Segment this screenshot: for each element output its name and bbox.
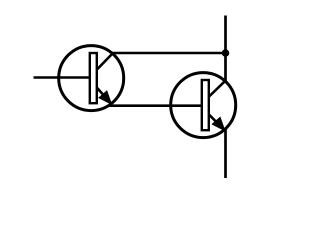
Q2 emitter arrowhead	[212, 117, 225, 130]
wire W6: Q2 collector lead to rail	[207, 81, 225, 99]
wire W1: Q1 base lead from left	[34, 76, 92, 79]
transistor Q2 circle	[171, 73, 236, 138]
wire W7: Q2 emitter lead diagonal	[207, 113, 225, 131]
Q1 emitter arrowhead	[99, 91, 112, 104]
wire W4: Q1 emitter to Q2 base	[109, 104, 204, 107]
junction J1 dot	[222, 49, 230, 57]
wire W3: Q1 emitter lead diagonal	[95, 86, 111, 105]
transistor Q2 base bar	[202, 80, 209, 130]
wire W5: collector rail upper segment	[224, 16, 227, 83]
wire W8: Q2 emitter rail lower segment	[224, 129, 227, 179]
transistor Q1 circle	[59, 46, 124, 111]
transistor Q1 base bar	[90, 53, 97, 103]
wire W2: Q1 collector lead to top rail	[95, 53, 226, 72]
